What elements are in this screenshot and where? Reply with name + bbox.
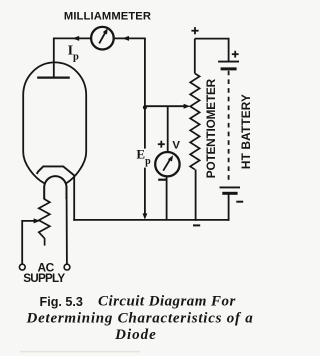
bottom rail wire: [73, 219, 229, 221]
wire wiper horizontal: [145, 105, 186, 107]
voltmeter plus: [158, 141, 165, 148]
svg-text:HT BATTERY: HT BATTERY: [239, 94, 253, 169]
battery top cell long plate: [218, 61, 239, 63]
plate (anode): [37, 76, 70, 78]
scan artifact bottom smudge: [20, 351, 140, 353]
svg-text:Circuit Diagram For: Circuit Diagram For: [98, 294, 236, 310]
svg-text:V: V: [172, 140, 180, 152]
arrow current left on plate wire: [72, 36, 79, 41]
label Ep: [136, 147, 153, 168]
potentiometer top lead: [194, 39, 196, 74]
battery plus top: [232, 51, 239, 58]
battery bottom cell long plate: [220, 186, 241, 188]
junction node: [143, 105, 147, 109]
battery bottom cell short plate: [222, 192, 237, 195]
svg-text:Determining Characteristics of: Determining Characteristics of a: [26, 310, 254, 326]
svg-text:SUPPLY: SUPPLY: [23, 272, 65, 285]
rheostat free end stub: [44, 238, 46, 246]
svg-text:Diode: Diode: [114, 327, 157, 343]
arrow wiper into potentiometer: [184, 104, 191, 109]
wire milliammeter to right corner: [114, 37, 146, 39]
rail minus: [193, 224, 200, 226]
svg-text:MILLIAMMETER: MILLIAMMETER: [64, 11, 151, 23]
cathode wire down to rail: [73, 175, 75, 221]
rheostat R1 zigzag: [39, 199, 50, 238]
filament right lead: [66, 198, 68, 264]
svg-text:POTENTIOMETER: POTENTIOMETER: [204, 78, 218, 178]
voltmeter top lead: [167, 106, 169, 152]
arrow down at rail: [143, 213, 148, 219]
potentiometer bottom lead: [195, 169, 197, 220]
potentiometer zigzag: [190, 73, 199, 169]
voltmeter bottom lead: [166, 176, 168, 220]
cathode dome: [44, 176, 66, 199]
battery bottom lead: [228, 194, 230, 221]
AC terminal left: [19, 264, 25, 270]
battery minus: [236, 201, 243, 203]
filament left lead: [43, 197, 45, 199]
wire plate-top to milliammeter: [54, 37, 91, 39]
svg-text:Fig. 5.3: Fig. 5.3: [40, 295, 83, 309]
AC terminal right: [64, 264, 70, 270]
voltmeter minus: [158, 179, 166, 181]
wire top to battery: [195, 39, 229, 62]
battery top cell short plate: [221, 67, 237, 70]
arrow current left on right wire: [122, 36, 129, 41]
battery dashed body: [228, 71, 230, 184]
diode tube V1 envelope: [23, 62, 86, 183]
wire plate lead vertical: [53, 38, 55, 79]
wire Ep branch vertical: [144, 38, 146, 216]
voltmeter V: [155, 152, 179, 176]
plus above potentiometer: [191, 27, 198, 34]
rheostat wiper arrow wire: [22, 221, 35, 264]
milliammeter MA: [91, 27, 114, 50]
filament chevron: [37, 166, 74, 175]
